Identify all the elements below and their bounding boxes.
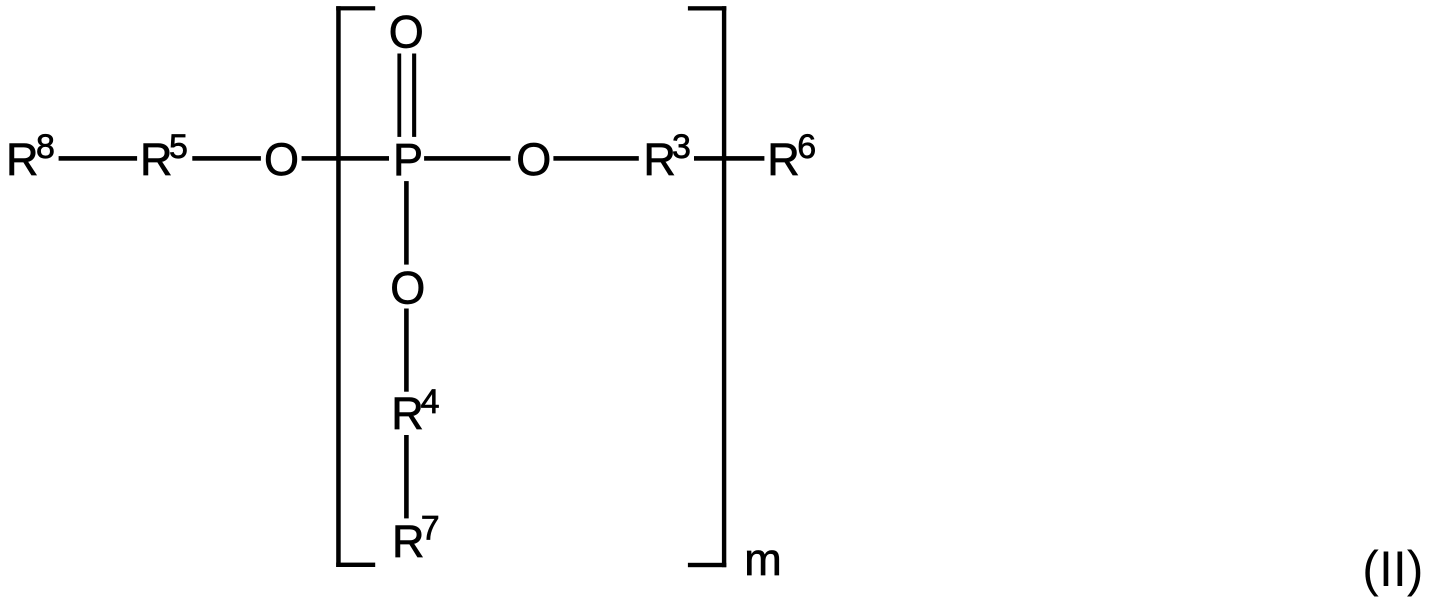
bond O3-R3 <box>553 156 638 161</box>
atom R4 <box>391 383 439 439</box>
svg-text:R: R <box>140 134 173 185</box>
svg-text:8: 8 <box>36 128 55 166</box>
svg-text:5: 5 <box>169 128 188 166</box>
svg-text:R: R <box>391 388 424 439</box>
svg-text:O: O <box>390 263 425 314</box>
atom R5 <box>140 128 188 185</box>
atom R6 <box>767 128 816 185</box>
svg-text:O: O <box>516 134 551 185</box>
bond R5-O1 <box>192 156 261 161</box>
bond O2-R4 (vertical) <box>404 309 409 392</box>
double bond P=O <box>397 54 416 137</box>
svg-text:(II): (II) <box>1362 541 1423 597</box>
left bracket <box>336 6 375 567</box>
atom R7 <box>392 510 440 567</box>
svg-text:7: 7 <box>421 510 440 548</box>
svg-text:m: m <box>744 534 782 585</box>
bond R3-R6 (crosses right bracket) <box>694 156 764 161</box>
bond P-O2 (vertical) <box>404 181 409 265</box>
bond O1-P (crosses left bracket) <box>302 156 389 161</box>
svg-text:R: R <box>6 134 39 185</box>
svg-text:O: O <box>264 134 299 185</box>
atom R3 <box>643 128 691 185</box>
svg-text:R: R <box>392 516 425 567</box>
bond R8-R5 <box>59 156 138 161</box>
svg-text:3: 3 <box>672 128 691 166</box>
bond R4-R7 (vertical) <box>404 435 409 518</box>
svg-text:P: P <box>393 134 423 185</box>
svg-text:6: 6 <box>797 128 816 166</box>
bond P-O3 <box>424 156 510 161</box>
right bracket <box>688 6 726 567</box>
svg-text:4: 4 <box>421 383 440 421</box>
svg-text:R: R <box>767 134 800 185</box>
svg-text:O: O <box>389 7 424 58</box>
atom R8 <box>6 128 55 185</box>
